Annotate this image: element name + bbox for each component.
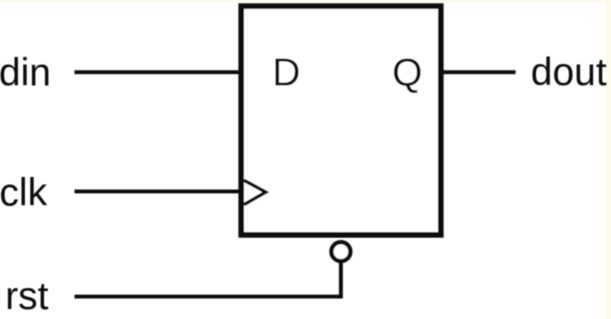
svg-text:D: D bbox=[272, 51, 300, 94]
wire clk bbox=[75, 189, 242, 193]
svg-text:dout: dout bbox=[531, 51, 607, 94]
wire dout bbox=[441, 70, 516, 74]
reset bubble bbox=[331, 242, 350, 261]
flip-flop body U1 bbox=[241, 6, 441, 235]
clock edge triangle bbox=[244, 180, 266, 204]
svg-text:din: din bbox=[0, 51, 51, 94]
svg-text:rst: rst bbox=[5, 275, 48, 318]
cream slide edge right bbox=[606, 0, 611, 319]
wire din bbox=[75, 70, 242, 74]
svg-text:Q: Q bbox=[392, 51, 422, 94]
cream slide edge top bbox=[0, 0, 611, 2]
wire rst bbox=[75, 261, 341, 296]
svg-text:clk: clk bbox=[0, 172, 48, 215]
